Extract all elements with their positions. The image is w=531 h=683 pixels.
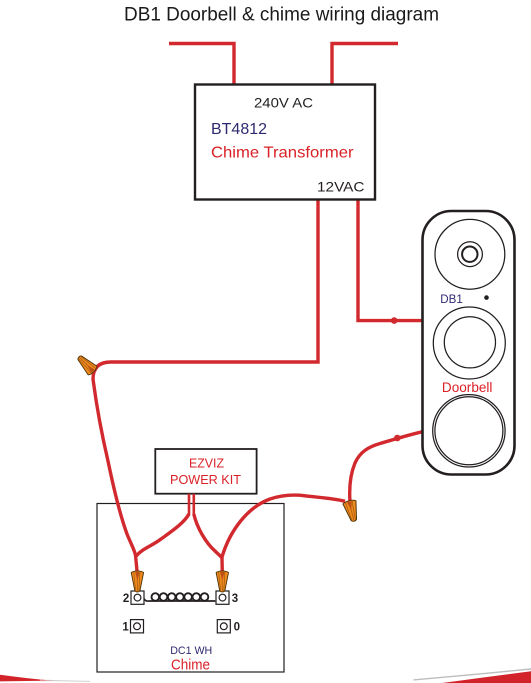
wire 12VAC left lead down to chime terminal 2 (93, 199, 318, 573)
svg-text:BT4812: BT4812 (211, 121, 267, 138)
svg-text:DB1: DB1 (440, 294, 463, 306)
footer swoosh left pink tip (40, 680, 66, 682)
footer swoosh right (442, 671, 531, 683)
wire mains right (332, 44, 398, 86)
svg-text:Chime Transformer: Chime Transformer (211, 145, 354, 162)
svg-text:Doorbell: Doorbell (442, 380, 493, 395)
svg-text:240V AC: 240V AC (254, 94, 313, 110)
wirenut W1 on bend (74, 352, 98, 376)
svg-text:12VAC: 12VAC (317, 179, 365, 195)
wire wirenut W3 to terminal 3 (222, 495, 345, 557)
footer swoosh left (0, 675, 53, 682)
doorbell camera lens (462, 247, 477, 262)
wire lead to terminal 3 (194, 514, 223, 573)
wirenut on terminal 3 (216, 571, 228, 592)
power kit twin leads (189, 494, 194, 515)
chime box (97, 504, 284, 673)
doorbell button inner circle (444, 317, 495, 368)
svg-text:EZVIZ: EZVIZ (189, 457, 224, 471)
doorbell speaker inner circle (435, 397, 503, 465)
svg-text:POWER KIT: POWER KIT (170, 473, 241, 487)
terminal 0 (217, 620, 240, 634)
wire lead to terminal 2 (136, 514, 189, 556)
wire mains left (169, 44, 234, 86)
doorbell status dot (484, 295, 489, 300)
wire doorbell to wirenut W3 (350, 431, 424, 502)
footer swoosh left gray tail (46, 680, 90, 681)
svg-text:DC1 WH: DC1 WH (170, 645, 212, 657)
terminal 3 (216, 591, 238, 605)
transformer BT4812 box (195, 85, 375, 200)
wirenut on terminal 2 (131, 571, 143, 592)
terminal 1 (122, 620, 143, 634)
doorbell camera outer circle (435, 219, 505, 289)
junction dot B (394, 435, 401, 442)
svg-text:0: 0 (234, 622, 240, 634)
wirenut W3 (343, 499, 361, 523)
EZVIZ power kit box (155, 449, 256, 494)
svg-text:DB1 Doorbell & chime wiring di: DB1 Doorbell & chime wiring diagram (124, 5, 439, 26)
doorbell DB1 body (423, 211, 515, 475)
chime coil (144, 599, 216, 602)
svg-text:2: 2 (123, 593, 129, 605)
wire 12VAC right lead to doorbell (358, 199, 423, 321)
footer swoosh right gray line (414, 669, 531, 680)
chime coil loops (152, 593, 209, 601)
doorbell button outer circle (433, 307, 505, 379)
svg-text:Chime: Chime (171, 657, 210, 674)
terminal 2 (123, 591, 144, 605)
svg-text:3: 3 (232, 593, 238, 605)
svg-text:1: 1 (122, 622, 129, 634)
junction dot A (391, 317, 398, 324)
doorbell speaker outer circle (433, 395, 505, 467)
doorbell camera lens ring (458, 242, 483, 267)
